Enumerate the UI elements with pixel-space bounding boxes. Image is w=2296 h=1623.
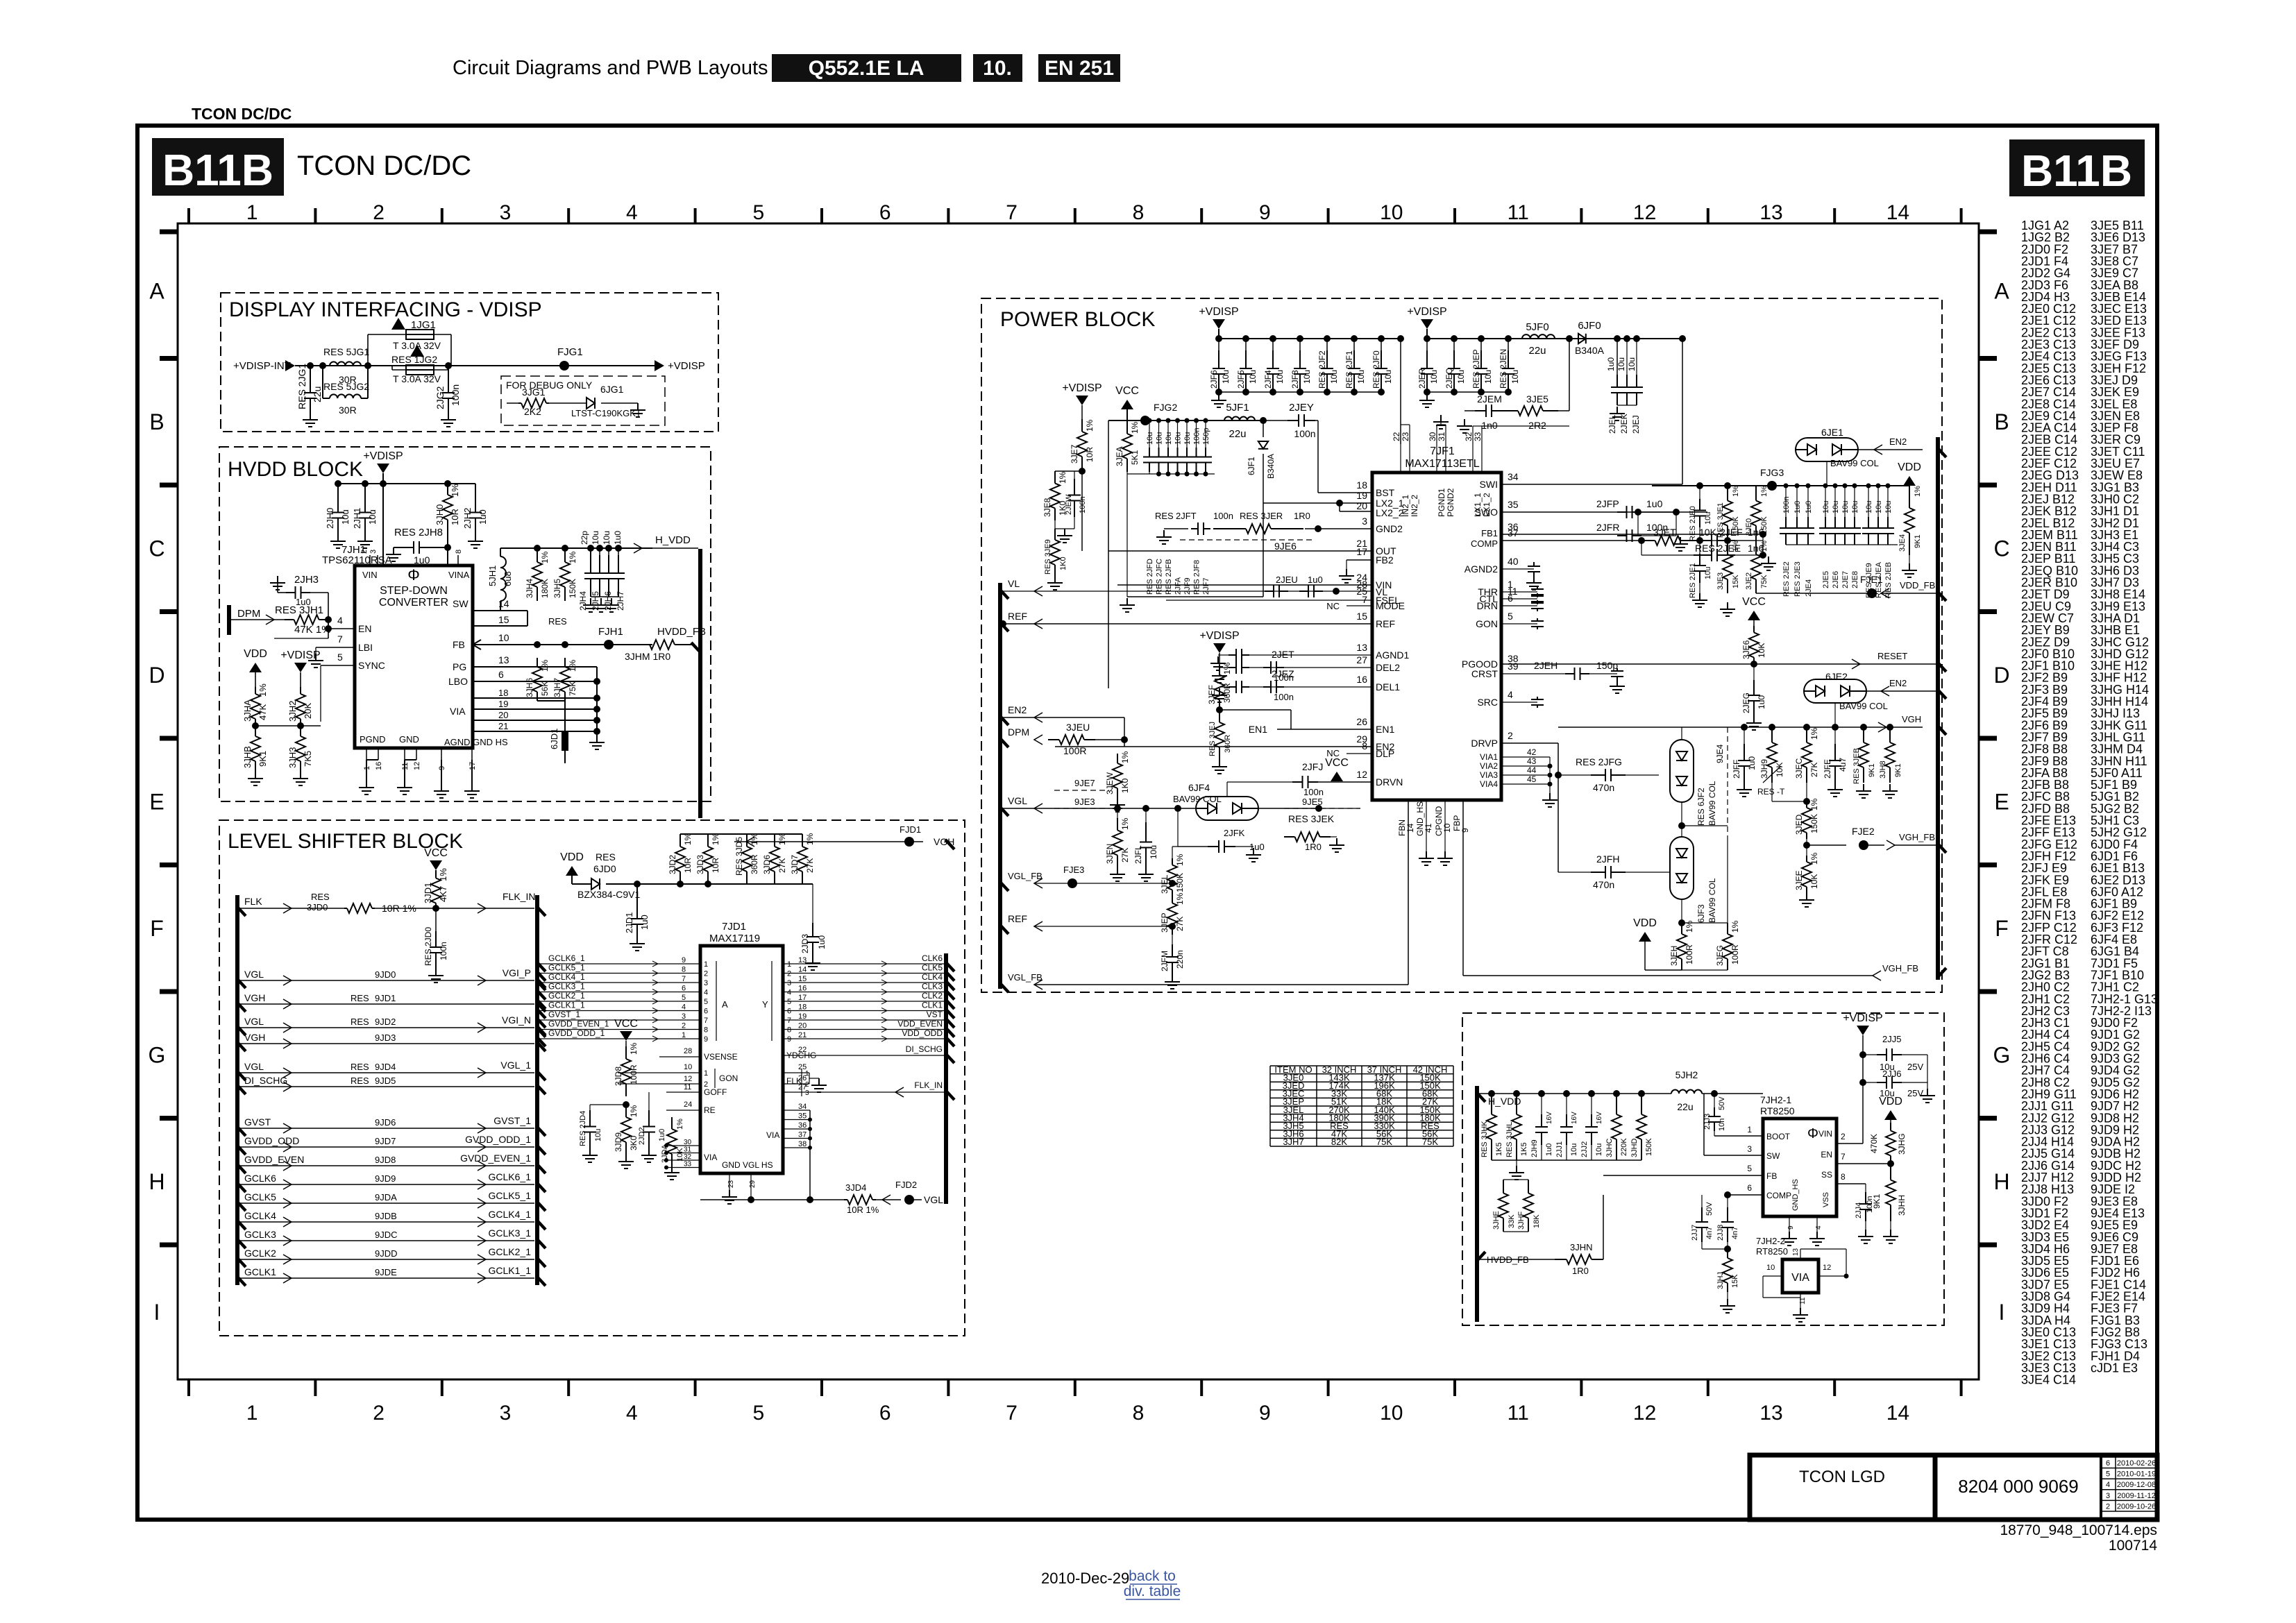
svg-text:2JH3: 2JH3: [294, 574, 319, 586]
svg-text:GVST_1: GVST_1: [548, 1010, 580, 1019]
svg-text:6u8: 6u8: [503, 571, 513, 586]
svg-text:10: 10: [498, 632, 509, 643]
svg-text:1u0: 1u0: [1308, 575, 1323, 585]
svg-text:VIA3: VIA3: [1480, 770, 1498, 780]
svg-text:2JE5: 2JE5: [1822, 571, 1830, 588]
svg-text:2K2: 2K2: [524, 406, 541, 417]
svg-text:1: 1: [787, 960, 791, 969]
svg-text:13: 13: [1356, 642, 1367, 653]
svg-text:35: 35: [798, 1112, 807, 1121]
svg-text:10u: 10u: [1183, 432, 1192, 445]
svg-text:10u: 10u: [1456, 370, 1466, 384]
svg-text:16V: 16V: [1596, 1112, 1603, 1124]
svg-text:11: 11: [684, 1083, 691, 1091]
column ruler ticks bottom: [187, 1379, 190, 1396]
svg-text:SRC: SRC: [1477, 697, 1498, 708]
svg-text:10u: 10u: [602, 531, 611, 545]
svg-text:6: 6: [879, 1402, 891, 1425]
svg-text:CONVERTER: CONVERTER: [379, 597, 448, 609]
sheet code box B11B right: [2009, 139, 2145, 196]
svg-text:2: 2: [373, 1402, 385, 1425]
svg-text:GCLK2_1: GCLK2_1: [548, 991, 585, 1001]
svg-text:FJD2: FJD2: [895, 1180, 917, 1190]
svg-text:10u: 10u: [1165, 432, 1173, 445]
net 9JE6 dashed: [1180, 539, 1312, 541]
svg-text:25V: 25V: [1907, 1062, 1923, 1072]
svg-text:2: 2: [682, 1022, 686, 1030]
svg-text:2JH5: 2JH5: [591, 591, 600, 611]
svg-text:3JG1: 3JG1: [522, 386, 546, 398]
svg-text:10K: 10K: [1809, 874, 1819, 889]
fuse 1JG2 T 3.0A 32V: [410, 345, 424, 357]
wire vdisp-int rail: [309, 365, 715, 366]
svg-text:1%: 1%: [540, 659, 550, 672]
svg-text:1u0: 1u0: [817, 935, 827, 949]
svg-text:7: 7: [337, 634, 343, 645]
svg-text:13: 13: [1759, 1402, 1782, 1425]
svg-text:10u: 10u: [591, 531, 600, 545]
svg-text:VGH_FB: VGH_FB: [1882, 963, 1918, 974]
svg-text:RES: RES: [351, 1076, 369, 1086]
svg-text:RES 3JE1: RES 3JE1: [1716, 502, 1725, 538]
svg-text:10u: 10u: [1865, 501, 1873, 513]
svg-text:11: 11: [1508, 201, 1529, 224]
svg-text:VGL: VGL: [244, 969, 264, 980]
svg-text:VGL_FB: VGL_FB: [1008, 972, 1043, 983]
svg-text:VGL: VGL: [244, 1061, 264, 1072]
svg-text:VCC: VCC: [424, 847, 448, 859]
svg-text:CRST: CRST: [1471, 668, 1499, 679]
svg-text:2JJ8: 2JJ8: [1716, 1225, 1725, 1241]
svg-text:SYNC: SYNC: [358, 660, 385, 671]
net DI_SCHG row: [237, 1085, 246, 1094]
svg-text:RES 2JE0: RES 2JE0: [1689, 506, 1697, 541]
resistor 3JE7 10R 1%: [1081, 419, 1083, 432]
svg-text:+VDISP: +VDISP: [1843, 1012, 1882, 1024]
svg-text:4K7: 4K7: [438, 886, 448, 902]
svg-text:22u: 22u: [312, 386, 323, 402]
capacitor 2JF3 10u: [1297, 335, 1303, 342]
net VGL row: [237, 1026, 246, 1035]
svg-text:2JJ4: 2JJ4: [1855, 1203, 1863, 1218]
svg-text:2JEM: 2JEM: [1477, 393, 1502, 405]
svg-text:F: F: [1995, 916, 2009, 941]
svg-text:GCLK5: GCLK5: [244, 1191, 276, 1203]
svg-text:PGND: PGND: [360, 734, 386, 745]
svg-text:3JH3: 3JH3: [287, 747, 298, 768]
bus level-shifter input: [235, 895, 239, 1285]
svg-text:3JE4: 3JE4: [1898, 534, 1907, 552]
resistor 3JEF 360R 1%: [1219, 665, 1220, 675]
svg-text:3JEW: 3JEW: [1105, 772, 1115, 794]
svg-text:17: 17: [798, 994, 807, 1002]
svg-text:1: 1: [246, 1402, 258, 1425]
svg-text:DEL1: DEL1: [1376, 681, 1400, 692]
svg-text:14: 14: [1406, 823, 1415, 833]
svg-text:16V: 16V: [1546, 1112, 1553, 1124]
resistor 3JEP 27K 1%: [1172, 897, 1173, 903]
svg-text:9K1: 9K1: [1894, 763, 1902, 777]
svg-text:100n: 100n: [1274, 692, 1294, 702]
svg-text:RES 2JE1: RES 2JE1: [1689, 563, 1697, 598]
wire vcc rail: [1108, 420, 1263, 421]
svg-text:2JEJ: 2JEJ: [1631, 415, 1641, 434]
svg-text:9JD6: 9JD6: [375, 1117, 396, 1128]
capacitor 2JJ4 100n: [1865, 1192, 1866, 1204]
svg-text:2JEG: 2JEG: [1741, 692, 1751, 713]
svg-text:CLK3: CLK3: [922, 982, 943, 992]
svg-text:RES 2JD0: RES 2JD0: [423, 927, 433, 966]
svg-text:GCLK1_1: GCLK1_1: [489, 1265, 532, 1276]
svg-text:1%: 1%: [1685, 920, 1694, 933]
capacitor RES 2JFC 10u: [1156, 418, 1161, 423]
svg-text:DI_SCHG: DI_SCHG: [906, 1044, 943, 1054]
svg-text:12: 12: [1356, 769, 1367, 780]
svg-text:5: 5: [682, 994, 686, 1002]
net 9JE5 dashed: [1284, 808, 1360, 809]
svg-text:2010-01-19: 2010-01-19: [2117, 1470, 2156, 1479]
svg-text:VGL_FB: VGL_FB: [1008, 871, 1043, 881]
svg-text:150p: 150p: [1596, 660, 1618, 671]
net VGL bottom row with resistor 3JD4 10R 1%: [700, 1199, 844, 1200]
capacitor 2JF4 10u: [1269, 335, 1276, 342]
svg-text:PGND2: PGND2: [1446, 488, 1455, 517]
svg-text:BOOT: BOOT: [1766, 1132, 1791, 1141]
svg-text:RES: RES: [548, 616, 567, 627]
capacitor 2JEG 1u0: [1753, 664, 1755, 680]
svg-text:3JE0: 3JE0: [1745, 518, 1753, 536]
svg-text:VIA2: VIA2: [1480, 761, 1498, 771]
resistor 3JE1 150K 1% (RES): [1727, 486, 1728, 501]
net GVDD_ODD row: [237, 1145, 246, 1155]
svg-text:FJG2: FJG2: [1154, 402, 1177, 413]
svg-text:10: 10: [1766, 1264, 1775, 1272]
resistor 3JH6 56K 1%: [537, 658, 538, 667]
svg-text:30: 30: [1428, 432, 1437, 441]
resistor 3JE0 150K 1%: [1755, 486, 1757, 501]
svg-text:BST: BST: [1376, 487, 1395, 498]
svg-text:2JFT: 2JFT: [1176, 511, 1197, 521]
svg-text:4: 4: [337, 615, 343, 626]
resistor 3JEL 150K 1%: [1172, 858, 1173, 865]
svg-text:SS: SS: [1821, 1170, 1832, 1180]
svg-text:9JD2: 9JD2: [375, 1017, 396, 1027]
capacitor RES 2JEP 10u: [1478, 335, 1485, 342]
wire debug branch: [513, 366, 514, 403]
svg-text:100n: 100n: [1866, 1196, 1874, 1213]
svg-text:RESET: RESET: [1877, 651, 1907, 661]
svg-text:EN 251: EN 251: [1045, 57, 1114, 80]
svg-text:2JF6: 2JF6: [1209, 370, 1219, 389]
net VGH row: [237, 1042, 246, 1051]
svg-text:10u: 10u: [1884, 501, 1893, 513]
svg-text:TCON DC/DC: TCON DC/DC: [297, 151, 471, 181]
capacitor RES 2JF0 10u: [1378, 335, 1385, 342]
svg-text:VGI_P: VGI_P: [503, 967, 531, 978]
svg-text:1%: 1%: [1120, 817, 1130, 830]
resistor 3JD5 360R 1% (RES): [746, 834, 748, 847]
svg-text:9: 9: [682, 956, 686, 965]
svg-text:1K0: 1K0: [1120, 778, 1130, 793]
svg-text:3JD4: 3JD4: [845, 1182, 866, 1193]
capacitor 2JEQ 10u: [1451, 335, 1458, 342]
svg-text:1: 1: [704, 960, 708, 969]
svg-text:VGL: VGL: [244, 1016, 264, 1027]
svg-text:3JE8: 3JE8: [1043, 498, 1052, 517]
svg-text:2JF4: 2JF4: [1263, 370, 1273, 389]
svg-text:VSS: VSS: [1822, 1192, 1830, 1207]
svg-text:VDD_ODD: VDD_ODD: [902, 1028, 943, 1038]
svg-text:GCLK4: GCLK4: [244, 1210, 276, 1221]
svg-text:10u: 10u: [1875, 501, 1883, 513]
svg-text:3JHD: 3JHD: [1630, 1138, 1639, 1157]
resistor 3JH2 20K: [300, 687, 301, 694]
svg-text:1%: 1%: [1730, 920, 1740, 933]
svg-text:D: D: [149, 663, 164, 688]
svg-text:VST: VST: [927, 1010, 943, 1019]
svg-text:GCLK3_1: GCLK3_1: [548, 982, 585, 992]
svg-text:9: 9: [787, 1035, 791, 1044]
svg-text:CLK4: CLK4: [922, 972, 943, 982]
svg-text:5: 5: [787, 998, 791, 1006]
svg-text:22p: 22p: [580, 531, 589, 545]
svg-text:1%: 1%: [1732, 541, 1740, 552]
net DPM input: [227, 605, 231, 635]
header tag EN 251: [1038, 54, 1120, 82]
svg-text:DI_SCHG: DI_SCHG: [244, 1075, 287, 1086]
svg-text:BAV99 COL: BAV99 COL: [1707, 781, 1717, 826]
svg-text:BAV99 COL: BAV99 COL: [1707, 878, 1717, 923]
pin GOFF 11: [666, 1091, 700, 1093]
svg-text:3JHE: 3JHE: [1492, 1211, 1501, 1230]
svg-text:5: 5: [704, 998, 708, 1006]
item value table: [1270, 1065, 1453, 1067]
svg-text:G: G: [149, 1042, 166, 1067]
svg-text:29: 29: [749, 1180, 757, 1188]
svg-text:BAV99 COL: BAV99 COL: [1839, 701, 1888, 711]
svg-text:3JEG: 3JEG: [1715, 945, 1725, 966]
svg-text:10R: 10R: [1085, 447, 1095, 462]
svg-text:Φ: Φ: [1807, 1126, 1818, 1141]
svg-text:1u0: 1u0: [1805, 501, 1813, 513]
svg-text:POWER BLOCK: POWER BLOCK: [1000, 308, 1155, 331]
capacitor 2JFL 10u: [1145, 808, 1147, 822]
net GVST row: [237, 1126, 246, 1136]
svg-text:2JF5: 2JF5: [1236, 370, 1246, 389]
svg-text:6: 6: [879, 201, 891, 224]
svg-text:6: 6: [2106, 1459, 2110, 1468]
svg-text:6: 6: [787, 1008, 791, 1016]
svg-text:2: 2: [1508, 730, 1513, 741]
svg-text:GCLK1_1: GCLK1_1: [548, 1001, 585, 1010]
bus level-shifter output: [944, 953, 948, 1204]
capacitor 2JJ7 4n7 50V: [1603, 1175, 1604, 1195]
net HVDD_FB (rt8250): [1476, 1252, 1485, 1261]
svg-text:1u0: 1u0: [1757, 695, 1766, 709]
svg-text:2JE6: 2JE6: [1832, 571, 1840, 588]
capacitor 2JJ3 10n 50V: [1714, 1094, 1715, 1107]
net GCLK2 row: [237, 1257, 246, 1267]
resistor 3JEW 1K0 1%: [1117, 754, 1118, 763]
svg-text:17: 17: [1356, 546, 1367, 557]
svg-text:BAV99 COL: BAV99 COL: [1830, 458, 1879, 468]
svg-text:GCLK4_1: GCLK4_1: [548, 972, 585, 982]
svg-text:10u: 10u: [1704, 512, 1712, 525]
svg-text:3JE4 C14: 3JE4 C14: [2021, 1373, 2076, 1387]
svg-text:DLP: DLP: [1376, 748, 1394, 759]
svg-text:9JD1: 9JD1: [375, 993, 396, 1003]
svg-text:5: 5: [752, 201, 764, 224]
bus level-shifter mid: [535, 895, 539, 1285]
svg-text:8: 8: [1133, 201, 1145, 224]
svg-text:150K: 150K: [1645, 1138, 1653, 1156]
svg-text:9JDB: 9JDB: [375, 1211, 397, 1221]
svg-text:VDD: VDD: [560, 851, 584, 863]
svg-text:2: 2: [2106, 1502, 2110, 1511]
svg-text:7: 7: [1841, 1152, 1846, 1162]
resistor 3JHJ 15K: [1727, 1249, 1728, 1258]
svg-text:10u: 10u: [1483, 370, 1493, 384]
svg-text:12: 12: [684, 1075, 692, 1083]
bus power-block left: [998, 583, 1002, 989]
pins GON 10 12: [618, 1072, 700, 1073]
svg-text:1%: 1%: [676, 1119, 684, 1130]
svg-text:RES 1JG2: RES 1JG2: [391, 354, 437, 365]
svg-text:GCLK5_1: GCLK5_1: [548, 963, 585, 973]
svg-text:9JDC: 9JDC: [375, 1230, 398, 1240]
svg-text:56K: 56K: [540, 681, 550, 696]
svg-text:7JH2-2: 7JH2-2: [1756, 1236, 1785, 1246]
svg-text:27K: 27K: [1175, 917, 1185, 931]
resistor 3JHH 9K1: [1890, 1164, 1891, 1180]
svg-text:9: 9: [1259, 201, 1271, 224]
svg-text:GOFF: GOFF: [704, 1087, 727, 1097]
svg-text:1u0: 1u0: [1606, 357, 1616, 371]
svg-text:10R: 10R: [711, 858, 720, 873]
svg-text:9JD5: 9JD5: [375, 1076, 396, 1086]
svg-text:RES 2JEP: RES 2JEP: [1471, 349, 1481, 389]
svg-text:4n7: 4n7: [1731, 1227, 1739, 1239]
fuse 1JG1 T 3.0A 32V: [391, 318, 405, 330]
svg-text:3: 3: [500, 201, 512, 224]
svg-text:10u: 10u: [1841, 501, 1850, 513]
svg-text:RES 2JEB: RES 2JEB: [1884, 562, 1893, 598]
svg-text:+VDISP-INT: +VDISP-INT: [233, 360, 291, 372]
svg-text:3JH9: 3JH9: [1759, 759, 1769, 779]
svg-text:+VDISP: +VDISP: [280, 649, 320, 661]
dual diode 6JF2 BAV99 COL (RES): [1670, 740, 1694, 802]
svg-text:20: 20: [1356, 500, 1367, 511]
capacitor 2JD1 1u0: [634, 881, 641, 887]
svg-text:10u: 10u: [1275, 370, 1285, 384]
svg-text:150K: 150K: [568, 579, 577, 598]
svg-text:3JE2: 3JE2: [1745, 572, 1753, 590]
pins VIA1-4 42-45: [1501, 756, 1550, 758]
capacitor 2JH1 10u: [364, 484, 366, 496]
node FJE2 net VGH_FB: [1806, 839, 1807, 856]
svg-text:27: 27: [1356, 654, 1367, 665]
svg-text:3JEL: 3JEL: [1160, 874, 1170, 894]
svg-text:H_VDD: H_VDD: [655, 534, 691, 546]
svg-text:47K: 47K: [258, 704, 268, 720]
svg-text:FJD1: FJD1: [900, 824, 921, 835]
svg-text:40: 40: [1508, 556, 1519, 567]
svg-text:32: 32: [1464, 432, 1474, 441]
net 9JE7 9JE3 dashed labels: [1054, 790, 1109, 791]
svg-text:VDD_EVEN: VDD_EVEN: [897, 1019, 943, 1029]
svg-text:9: 9: [1460, 828, 1470, 833]
svg-text:9K1: 9K1: [1868, 763, 1876, 777]
resistor 3JHE 33K: [1503, 1180, 1504, 1193]
capacitors 2JE9 2JEA 2JEB bank (RES): [1866, 484, 1871, 488]
svg-text:3: 3: [682, 1012, 686, 1021]
svg-text:13: 13: [1759, 201, 1782, 224]
sheet code box B11B left: [152, 138, 284, 196]
svg-text:9JD8: 9JD8: [375, 1155, 396, 1165]
svg-text:VGH: VGH: [244, 1032, 265, 1043]
svg-text:GON: GON: [719, 1073, 738, 1083]
svg-text:2JFA: 2JFA: [1174, 577, 1183, 595]
net VL: [999, 589, 1008, 599]
svg-text:14: 14: [1886, 201, 1909, 224]
svg-text:10u: 10u: [1704, 567, 1712, 579]
resistor 3JEE 10K 1%: [1806, 856, 1807, 862]
svg-text:2JFR: 2JFR: [1596, 522, 1619, 533]
block HVDD BLOCK: [219, 447, 711, 801]
svg-text:EN: EN: [1821, 1150, 1832, 1159]
svg-text:DPM: DPM: [237, 608, 260, 620]
svg-text:5JH2: 5JH2: [1675, 1069, 1698, 1080]
svg-text:2JH0: 2JH0: [325, 508, 335, 529]
svg-text:GVDD_EVEN_1: GVDD_EVEN_1: [548, 1019, 609, 1029]
svg-text:1%: 1%: [1058, 471, 1067, 484]
svg-text:27K: 27K: [777, 858, 787, 873]
svg-text:22u: 22u: [1528, 345, 1546, 357]
top pins IN2 PGND LX1: [1400, 444, 1401, 473]
svg-text:2JH4: 2JH4: [578, 591, 588, 611]
svg-text:H: H: [149, 1169, 164, 1194]
svg-text:5K1: 5K1: [1130, 450, 1140, 465]
svg-text:8: 8: [455, 550, 463, 554]
capacitor 2JH6 10u: [605, 545, 612, 552]
resistor 3JHD 150K: [1638, 1090, 1645, 1097]
resistor 3JD7 27K 1%: [802, 834, 803, 847]
svg-text:1%: 1%: [450, 484, 460, 497]
resistor 3JHA 47K 1%: [255, 687, 256, 694]
svg-text:13: 13: [798, 956, 807, 965]
capacitor RES 2JF8 100n: [1194, 418, 1199, 423]
svg-text:9: 9: [1787, 1225, 1795, 1230]
row ruler ticks left: [160, 356, 178, 361]
svg-text:6: 6: [682, 985, 686, 993]
svg-text:RES 3JHL: RES 3JHL: [1505, 1122, 1514, 1157]
ic right pins Y 13-21: [783, 963, 946, 965]
svg-text:EN1: EN1: [1249, 724, 1267, 735]
svg-text:10: 10: [684, 1063, 692, 1071]
svg-text:4: 4: [1508, 689, 1513, 700]
svg-text:9: 9: [1259, 1402, 1271, 1425]
svg-text:RT8250: RT8250: [1760, 1105, 1795, 1116]
svg-text:34: 34: [1508, 471, 1519, 482]
svg-text:10u: 10u: [1248, 370, 1258, 384]
svg-text:8204 000 9069: 8204 000 9069: [1958, 1476, 2079, 1497]
bottom pins GND_HS 9 VSS 4: [1789, 1216, 1790, 1232]
svg-text:32: 32: [684, 1153, 692, 1161]
svg-text:23: 23: [1401, 432, 1410, 441]
svg-text:cJD1 E3: cJD1 E3: [2091, 1361, 2138, 1375]
svg-text:EN2: EN2: [1889, 436, 1907, 447]
outer frame: [137, 126, 2157, 1520]
